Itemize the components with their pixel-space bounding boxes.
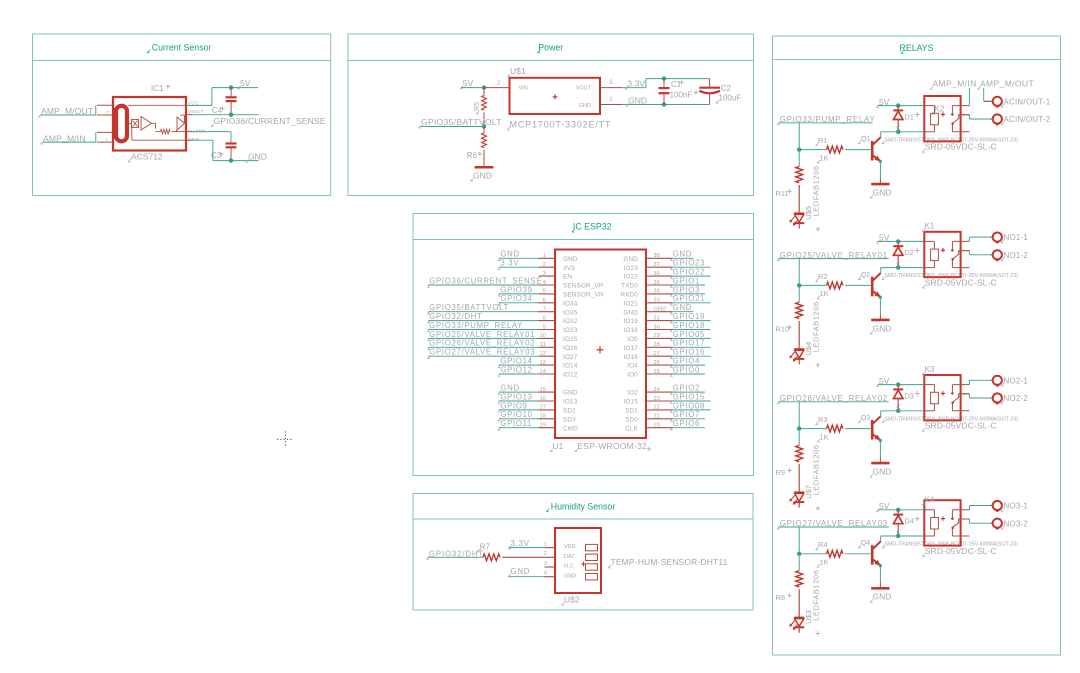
pin name C (collector, Q4)	[896, 529, 901, 536]
U1 pin GND GND (right)	[623, 307, 672, 317]
ground GND (block K2)	[870, 184, 891, 198]
U1 pin 15 GND (left)	[539, 387, 578, 397]
svg-text:GPIO35/BATTVOLT: GPIO35/BATTVOLT	[421, 117, 502, 127]
value label SMD-TRANSISTORS (block K3)	[882, 416, 1018, 422]
net label GPIO22 (U1 pin 36)	[670, 268, 710, 279]
connector NO3-2	[993, 519, 1029, 530]
IC1 thick current path	[113, 106, 127, 142]
svg-text:GND: GND	[500, 250, 519, 259]
svg-text:SRD-05VDC-SL-C: SRD-05VDC-SL-C	[925, 546, 997, 556]
svg-text:GPIO36/CURRENT_SENSE: GPIO36/CURRENT_SENSE	[429, 276, 542, 285]
node base junction (block K2)	[797, 147, 801, 151]
svg-text:13: 13	[540, 360, 546, 366]
U1 pin 38 GND (right)	[623, 253, 672, 263]
wire GND net	[186, 140, 259, 160]
wire NO1-1 to relay	[969, 237, 992, 241]
node 5V junction (block K1)	[896, 239, 900, 243]
wire GND rail (power)	[622, 104, 709, 106]
svg-text:I-: I-	[106, 137, 109, 143]
wire emitter to ground (block K1)	[879, 296, 882, 319]
wire emitter to ground (block K3)	[879, 439, 882, 462]
pin name C (collector, Q2)	[896, 261, 901, 268]
U$1 pin 1 stub GND	[600, 97, 622, 105]
svg-text:3.3V: 3.3V	[627, 78, 645, 88]
svg-text:IO18: IO18	[624, 327, 639, 334]
resistor R4 1K	[799, 540, 871, 567]
svg-text:100uF: 100uF	[719, 93, 742, 102]
ground GND (block K3)	[870, 463, 891, 477]
net label GPIO27/VALVE_RELAY03 (U1 pin 12)	[427, 348, 538, 359]
resistor R9 LED series	[776, 429, 803, 493]
net label 5V (block K3)	[877, 376, 925, 387]
svg-text:IO21: IO21	[624, 300, 639, 307]
resistor R10 LED series	[776, 285, 803, 349]
svg-text:15: 15	[540, 387, 546, 393]
svg-text:IO16: IO16	[624, 354, 639, 361]
U1 pin 25 IO0 (right)	[627, 369, 672, 379]
svg-text:ESP-WROOM-32: ESP-WROOM-32	[577, 441, 647, 451]
svg-text:IO15: IO15	[624, 399, 639, 406]
net label 3.3V and wire	[622, 78, 709, 89]
net label GPIO1 (U1 pin 35)	[670, 276, 705, 287]
svg-text:17: 17	[540, 405, 546, 411]
svg-text:IO12: IO12	[563, 372, 578, 379]
svg-text:K4: K4	[925, 495, 935, 504]
net label GPIO12 (U1 pin 14)	[498, 365, 539, 376]
svg-text:Q2: Q2	[861, 272, 870, 279]
U1 pin 37 IO23 (right)	[624, 262, 673, 272]
svg-text:3: 3	[544, 561, 547, 567]
U1 pin 5 SENSOR_VN (left)	[539, 289, 604, 299]
svg-text:36: 36	[653, 271, 659, 277]
resistor R1 1K	[799, 136, 871, 163]
net label GND (U1 pin GND)	[670, 303, 693, 314]
net label GND (current sensor)	[246, 152, 267, 163]
svg-text:GND: GND	[873, 188, 892, 198]
svg-text:GPIO35/BATTVOLT: GPIO35/BATTVOLT	[429, 303, 509, 312]
svg-text:GPIO9: GPIO9	[500, 401, 527, 410]
LED U$3 LEDFAB1206	[790, 570, 821, 636]
IC1 pin names VCC VIOUT FILTER GND	[188, 101, 206, 143]
svg-text:D2: D2	[904, 248, 914, 257]
svg-text:30: 30	[653, 324, 659, 330]
node GND/C1 junction	[662, 102, 666, 106]
svg-text:GPIO22: GPIO22	[673, 268, 705, 277]
svg-text:GND: GND	[623, 256, 638, 263]
svg-text:Humidity Sensor: Humidity Sensor	[551, 501, 616, 511]
svg-text:5V: 5V	[463, 78, 474, 88]
resistor R5	[474, 88, 487, 127]
net label GPIO15 (U1 pin 23)	[670, 392, 710, 403]
svg-text:35: 35	[653, 280, 659, 286]
LED U$5 LEDFAB1206	[790, 165, 821, 231]
U1 pin 3 EN (left)	[539, 271, 573, 281]
svg-text:AMP_M/OUT: AMP_M/OUT	[980, 79, 1034, 89]
wire emitter to ground (block K4)	[879, 564, 882, 587]
svg-text:GND: GND	[564, 573, 576, 579]
svg-text:I+: I+	[106, 109, 110, 115]
svg-text:GPIO16: GPIO16	[673, 348, 705, 357]
frame RELAYS	[773, 36, 1061, 655]
ground GND (block K4)	[870, 588, 891, 602]
wire relay coil to collector (block K1)	[881, 268, 925, 273]
svg-text:Power: Power	[538, 42, 563, 52]
svg-text:21: 21	[653, 414, 659, 420]
net label AMP_M/IN	[930, 79, 977, 106]
net label 5V	[238, 78, 251, 89]
svg-text:IO19: IO19	[624, 318, 639, 325]
node 5V junction	[229, 85, 233, 89]
net label GPIO32/DHT (DHT11)	[427, 549, 484, 559]
svg-text:R10: R10	[776, 325, 790, 334]
U1 pin 35 TXD0 (right)	[621, 280, 672, 290]
net label GPIO36/CURRENT_SENSE	[211, 116, 326, 127]
svg-text:IO4: IO4	[627, 363, 638, 370]
svg-text:AMP_M/IN: AMP_M/IN	[933, 79, 977, 89]
svg-text:IO22: IO22	[624, 274, 639, 281]
value label SRD-05VDC-SL-C (K1)	[922, 277, 997, 288]
svg-text:NO2-1: NO2-1	[1004, 376, 1029, 385]
svg-text:GPIO33/PUMP_RELAY: GPIO33/PUMP_RELAY	[429, 321, 523, 330]
svg-text:CMD: CMD	[563, 425, 578, 432]
svg-text:SRD-05VDC-SL-C: SRD-05VDC-SL-C	[925, 142, 997, 152]
svg-text:27: 27	[653, 351, 659, 357]
svg-text:GND: GND	[673, 303, 692, 312]
U1 pin 13 IO14 (left)	[539, 360, 578, 370]
wire relay coil to collector (block K3)	[881, 411, 925, 416]
svg-text:GPIO1: GPIO1	[673, 276, 700, 285]
svg-text:22: 22	[653, 405, 659, 411]
svg-text:SD0: SD0	[625, 416, 638, 423]
svg-text:GND: GND	[873, 592, 892, 602]
net label 5V (block K4)	[877, 501, 925, 512]
svg-text:C2: C2	[721, 84, 732, 93]
net label GND (U1 pin 15)	[498, 384, 539, 395]
svg-text:GPIO14: GPIO14	[500, 357, 532, 366]
resistor R11 LED series	[776, 150, 803, 214]
svg-text:7: 7	[543, 307, 546, 313]
svg-text:GPIO4: GPIO4	[673, 357, 700, 366]
relay K3 SRD-05VDC-SL-C	[922, 365, 969, 420]
svg-text:GPIO7: GPIO7	[673, 410, 700, 419]
svg-text:D3: D3	[904, 391, 914, 400]
U1 pin 27 IO16 (right)	[624, 351, 673, 361]
svg-text:GND: GND	[511, 567, 531, 576]
U1 pin 16 IO13 (left)	[539, 396, 578, 406]
net label GPIO11 (U1 pin 19)	[498, 419, 539, 430]
cursor crosshair	[277, 431, 293, 447]
svg-text:GPIO11: GPIO11	[500, 419, 532, 428]
svg-text:NO1-2: NO1-2	[1004, 251, 1029, 260]
svg-text:GPIO2: GPIO2	[673, 384, 700, 393]
node 5V junction (block K3)	[896, 382, 900, 386]
capacitor C1 100nF	[659, 79, 699, 105]
svg-text:VIN: VIN	[519, 85, 528, 91]
svg-text:IO25: IO25	[563, 336, 578, 343]
svg-text:GPIO08: GPIO08	[673, 401, 705, 410]
node diode/coil junction (block K1)	[896, 265, 900, 269]
U1 pin 12 IO27 (left)	[539, 351, 578, 361]
svg-text:ACS712: ACS712	[131, 152, 163, 162]
svg-text:29: 29	[653, 333, 659, 339]
svg-text:GPIO05: GPIO05	[673, 330, 705, 339]
svg-text:GND: GND	[873, 467, 892, 477]
net label GND (U1 pin 38)	[670, 250, 693, 261]
connector NO2-2	[993, 393, 1029, 404]
svg-text:IC ESP32: IC ESP32	[573, 222, 612, 232]
svg-text:GPIO36/CURRENT_SENSE: GPIO36/CURRENT_SENSE	[214, 116, 326, 126]
net label GPIO08 (U1 pin 22)	[670, 401, 710, 412]
wire NO3-1 to relay	[969, 506, 992, 510]
U$1 pin 2 stub	[484, 81, 510, 87]
wire ACIN/OUT-2 to relay	[961, 115, 993, 119]
frame IC ESP32	[413, 214, 754, 476]
node 3.3V/C1 junction	[662, 76, 666, 80]
svg-text:GPIO21: GPIO21	[673, 294, 705, 303]
svg-text:25: 25	[653, 369, 659, 375]
svg-text:33: 33	[653, 298, 659, 304]
net label GPIO26/VALVE_RELAY02 (U1 pin 11)	[427, 339, 538, 350]
svg-text:R4: R4	[818, 540, 828, 549]
net label AMP_M/IN	[41, 132, 96, 144]
node 5V/R5 junction	[482, 85, 486, 89]
U1 pin 28 IO17 (right)	[624, 342, 673, 352]
transistor Q3	[858, 415, 881, 441]
svg-text:K2: K2	[935, 104, 945, 113]
ground GND (power)	[471, 167, 494, 181]
wire VIOUT net	[186, 114, 259, 116]
value label SRD-05VDC-SL-C (K4)	[922, 546, 997, 557]
svg-text:GND: GND	[579, 103, 591, 109]
svg-text:VDD: VDD	[564, 544, 576, 550]
ground GND (block K1)	[870, 320, 891, 334]
svg-text:GPIO3: GPIO3	[673, 285, 700, 294]
svg-text:GPIO39: GPIO39	[500, 285, 532, 294]
svg-text:EN: EN	[563, 274, 572, 281]
svg-text:U$2: U$2	[564, 595, 580, 605]
net label GPIO21 (U1 pin 33)	[670, 294, 710, 305]
net label GPIO34 (U1 pin 6)	[498, 294, 539, 305]
net label GPIO2 (U1 pin 24)	[670, 384, 705, 395]
svg-text:GND: GND	[623, 309, 638, 316]
svg-text:Current Sensor: Current Sensor	[152, 42, 212, 52]
svg-text:LEDFAB1206: LEDFAB1206	[812, 444, 821, 495]
svg-text:GPIO23: GPIO23	[673, 259, 705, 268]
net label GPIO6 (U1 pin 20)	[670, 419, 705, 430]
net label 3.3V (U1 pin 2)	[498, 259, 539, 270]
svg-text:GPIO10: GPIO10	[500, 410, 532, 419]
node VIOUT junction	[229, 113, 233, 117]
svg-text:C4: C4	[212, 106, 223, 115]
svg-text:GPIO26/VALVE_RELAY02: GPIO26/VALVE_RELAY02	[429, 339, 535, 348]
svg-text:IO27: IO27	[563, 354, 578, 361]
svg-text:Q3: Q3	[861, 415, 870, 422]
node base junction (block K3)	[797, 426, 801, 430]
svg-text:IO26: IO26	[563, 345, 578, 352]
svg-text:K3: K3	[925, 365, 935, 374]
net label GPIO33/PUMP_RELAY (U1 pin 9)	[427, 321, 538, 332]
net label GND (DHT11)	[508, 567, 545, 577]
diode D4	[893, 510, 920, 536]
connector ACIN/OUT-2	[993, 114, 1051, 125]
svg-text:3.3V: 3.3V	[511, 539, 530, 548]
svg-text:1: 1	[544, 541, 547, 547]
U1 pin 10 IO25 (left)	[539, 333, 578, 343]
value label SMD-TRANSISTORS (block K1)	[882, 273, 1018, 279]
U1 pin 22 SD1 (right)	[625, 405, 672, 415]
svg-text:18: 18	[540, 414, 546, 420]
U1 pin 24 IO2 (right)	[627, 387, 672, 397]
svg-text:IO2: IO2	[627, 390, 638, 397]
U1 pin 14 IO12 (left)	[539, 369, 578, 379]
svg-text:N.C.: N.C.	[564, 564, 575, 570]
svg-text:GPIO13: GPIO13	[500, 392, 532, 401]
svg-text:GND: GND	[248, 152, 267, 162]
svg-text:GPIO12: GPIO12	[500, 365, 532, 374]
svg-text:26: 26	[653, 360, 659, 366]
svg-text:6: 6	[543, 298, 546, 304]
svg-text:VOUT: VOUT	[576, 85, 592, 91]
node 5V junction (block K2)	[896, 103, 900, 107]
U1 pin 9 IO33 (left)	[539, 324, 578, 334]
svg-text:SENSOR_VP: SENSOR_VP	[563, 283, 603, 290]
value label SMD-TRANSISTORS (block K2)	[882, 137, 1018, 143]
svg-text:12: 12	[540, 351, 546, 357]
svg-text:CLK: CLK	[625, 425, 638, 432]
svg-text:GND: GND	[628, 95, 647, 105]
svg-text:3: 3	[543, 271, 546, 277]
svg-text:IO14: IO14	[563, 363, 578, 370]
svg-text:GPIO19: GPIO19	[673, 312, 705, 321]
svg-text:IO5: IO5	[627, 336, 638, 343]
svg-text:DAT: DAT	[564, 554, 575, 560]
op-amp IC1 ACS712 body	[113, 84, 186, 162]
net label GPIO10 (U1 pin 18)	[498, 410, 539, 421]
svg-text:2: 2	[544, 551, 547, 557]
svg-text:GPIO34: GPIO34	[500, 294, 532, 303]
net label GPIO14 (U1 pin 13)	[498, 357, 539, 368]
net label GPIO27/VALVE_RELAY03	[777, 519, 889, 554]
net label GPIO23 (U1 pin 37)	[670, 259, 710, 270]
svg-text:U1: U1	[553, 441, 564, 451]
U1 pin 20 CLK (right)	[625, 423, 672, 433]
pin name C (collector, Q3)	[896, 404, 901, 411]
svg-text:1K: 1K	[820, 432, 829, 441]
U1 pin 29 IO5 (right)	[627, 333, 672, 343]
capacitor C4	[212, 88, 237, 115]
svg-text:GND: GND	[653, 307, 666, 313]
svg-text:19: 19	[540, 423, 546, 429]
svg-text:MCP1700T-3302E/TT: MCP1700T-3302E/TT	[510, 120, 612, 130]
net label GPIO35/BATTVOLT (U1 pin 7)	[427, 303, 538, 314]
svg-text:GPIO6: GPIO6	[673, 419, 700, 428]
transistor Q1	[858, 136, 881, 162]
svg-text:1K: 1K	[820, 289, 829, 298]
svg-text:R2: R2	[818, 272, 828, 281]
U1 pin 31 IO19 (right)	[624, 315, 673, 325]
svg-text:IO0: IO0	[627, 372, 638, 379]
frame Power	[348, 34, 754, 196]
net label GPIO35/BATTVOLT (power)	[419, 117, 502, 128]
svg-text:IO13: IO13	[563, 399, 578, 406]
svg-text:1K: 1K	[820, 558, 829, 567]
svg-text:GPIO15: GPIO15	[673, 392, 705, 401]
node diode/coil junction (block K3)	[896, 409, 900, 413]
svg-text:23: 23	[653, 396, 659, 402]
node R5/R6 junction	[482, 124, 486, 128]
svg-text:GPIO0: GPIO0	[673, 365, 700, 374]
net label 5V (power)	[460, 78, 484, 89]
connector NO3-1	[993, 501, 1029, 512]
svg-text:1K: 1K	[820, 153, 829, 162]
relay K2 SRD-05VDC-SL-C	[924, 96, 969, 141]
LED U$4 LEDFAB1206	[790, 301, 821, 367]
net label GPIO33/PUMP_RELAY	[777, 115, 875, 150]
svg-text:GND: GND	[673, 250, 692, 259]
net label GPIO25/VALVE_RELAY01	[777, 251, 889, 286]
U1 pin 18 SD3 (left)	[539, 414, 577, 424]
U1 pin 7 IO35 (left)	[539, 307, 578, 317]
resistor R7	[477, 542, 500, 560]
wire VCC to 5V rail	[186, 88, 258, 106]
U1 pin 11 IO26 (left)	[539, 342, 578, 352]
svg-text:10: 10	[540, 333, 546, 339]
U1 pin 6 IO34 (left)	[539, 298, 578, 308]
svg-text:GPIO17: GPIO17	[673, 339, 705, 348]
net label GPIO4 (U1 pin 26)	[670, 357, 705, 368]
svg-text:R3: R3	[818, 415, 828, 424]
U1 pin 2 3V3 (left)	[539, 262, 576, 272]
svg-text:C1: C1	[671, 80, 682, 89]
wire relay coil to collector (block K2)	[881, 132, 925, 137]
U1 pin 30 IO18 (right)	[624, 324, 673, 334]
resistor R3 1K	[799, 415, 871, 442]
U1 pin 23 IO15 (right)	[624, 396, 673, 406]
U$1 pin 3 stub VOUT	[600, 80, 622, 87]
sensor U$2 DHT11 body	[555, 528, 601, 605]
value label SMD-TRANSISTORS (block K4)	[882, 542, 1018, 548]
wire FILTER to C3	[186, 132, 231, 144]
capacitor C3	[211, 143, 237, 161]
IC1 pin IP-	[97, 132, 113, 142]
svg-text:SRD-05VDC-SL-C: SRD-05VDC-SL-C	[925, 277, 997, 287]
wire relay coil to collector (block K4)	[881, 536, 925, 541]
wire emitter to ground (block K2)	[879, 160, 882, 183]
wire NO2-2 to relay	[961, 394, 993, 398]
node diode/coil junction (block K4)	[896, 534, 900, 538]
net label GPIO17 (U1 pin 28)	[670, 339, 710, 350]
U$2 pin 4 stub	[544, 571, 555, 577]
U1 pin 36 IO22 (right)	[624, 271, 673, 281]
U1 pin 34 RXD0 (right)	[620, 289, 672, 299]
svg-text:Q4: Q4	[861, 540, 870, 547]
svg-text:ACIN/OUT-1: ACIN/OUT-1	[1004, 97, 1051, 106]
U$2 right side pads	[586, 544, 598, 580]
svg-text:D1: D1	[904, 112, 914, 121]
svg-text:LEDFAB1206: LEDFAB1206	[812, 301, 821, 352]
svg-text:8: 8	[543, 315, 546, 321]
svg-text:1: 1	[543, 253, 546, 259]
wire NO3-2 to relay	[961, 519, 993, 523]
svg-text:20: 20	[653, 423, 659, 429]
svg-text:3.3V: 3.3V	[500, 259, 519, 268]
net label AMP_M/OUT	[978, 79, 1035, 102]
net label GPIO26/VALVE_RELAY02	[777, 394, 889, 429]
net label 5V (block K1)	[877, 233, 925, 244]
svg-text:RXD0: RXD0	[620, 292, 638, 299]
svg-text:TEMP-HUM-SENSOR-DHT11: TEMP-HUM-SENSOR-DHT11	[611, 557, 728, 567]
diode D2	[893, 241, 920, 267]
